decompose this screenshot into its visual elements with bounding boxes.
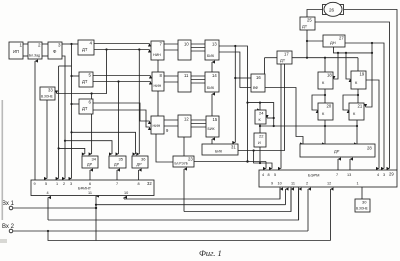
wire block32 pin 8 to block36 bottom bbox=[138, 170, 140, 180]
svg-text:НИН: НИН bbox=[153, 124, 161, 128]
svg-text:13: 13 bbox=[212, 42, 217, 47]
wire x307 down to block17 output bbox=[306, 41, 308, 58]
svg-text:35: 35 bbox=[119, 157, 124, 162]
wire stub into block14 bottom bbox=[211, 94, 213, 116]
node trunk at x338 bbox=[337, 52, 339, 54]
node block17 output at x325 bbox=[324, 57, 326, 59]
wire block25 bottom to block27 bbox=[307, 30, 323, 41]
block 9 bbox=[151, 116, 169, 134]
svg-text:12: 12 bbox=[184, 117, 189, 122]
wire block17 output to block18 and block19 tops bbox=[292, 58, 358, 72]
svg-text:БФИНТ: БФИНТ bbox=[78, 187, 92, 191]
block 6 bbox=[79, 99, 93, 114]
block 33 bbox=[40, 87, 55, 100]
svg-text:ИП: ИП bbox=[13, 49, 19, 54]
wire branch to block24 and block29 pin 5 bbox=[248, 103, 274, 126]
wire block16 top link to block17 bbox=[264, 58, 266, 74]
svg-text:25: 25 bbox=[307, 18, 312, 23]
wire branch into block21 left bbox=[343, 95, 358, 110]
svg-text:11: 11 bbox=[184, 73, 189, 78]
block 35 bbox=[109, 156, 126, 168]
node x273.7 joins y126 trunk bbox=[273, 125, 275, 127]
node trunk at y132 bbox=[70, 131, 72, 133]
wire block29 to block30 bbox=[361, 187, 363, 199]
svg-text:33: 33 bbox=[48, 88, 53, 93]
svg-text:В.ЗОНЕ: В.ЗОНЕ bbox=[356, 207, 368, 211]
wire block6 upper output to block9 bbox=[92, 103, 150, 121]
wire block32 pin 9 to block2 bottom bbox=[34, 61, 36, 180]
svg-text:3: 3 bbox=[383, 173, 385, 177]
svg-text:36: 36 bbox=[141, 157, 146, 162]
wire stub into block13 bottom bbox=[211, 62, 213, 72]
svg-text:Фиг. 1: Фиг. 1 bbox=[199, 248, 222, 258]
block 19 bbox=[351, 71, 366, 89]
wire branch into block6 bbox=[72, 103, 80, 105]
wire block19 bottom to block21 top bbox=[357, 89, 359, 103]
svg-text:1: 1 bbox=[56, 182, 58, 186]
node bx1 junction bbox=[95, 207, 97, 209]
scan artifact left edge bbox=[2, 100, 4, 220]
svg-text:ДР: ДР bbox=[137, 163, 143, 167]
block 22 bbox=[254, 133, 266, 147]
wire block8 to block9 chain bbox=[157, 91, 159, 116]
svg-text:2: 2 bbox=[306, 182, 308, 186]
wire branch into block16 upper input bbox=[235, 77, 251, 79]
node tee at x253.6 bbox=[253, 149, 255, 151]
wire feedback y199 block29 to block32 pin 10 bbox=[124, 188, 280, 200]
svg-text:В.ЗОНЕ: В.ЗОНЕ bbox=[41, 95, 53, 99]
wire block31 to block15 bottom bbox=[211, 139, 213, 144]
svg-text:4: 4 bbox=[47, 191, 49, 195]
wire x372 riser to block21 right bbox=[366, 43, 373, 107]
wire block17 bottom to block31 right bbox=[238, 64, 285, 151]
block 23 bbox=[173, 156, 194, 167]
node pin1 trunk at y148 bbox=[58, 147, 60, 149]
wire branch to block36 top left bbox=[72, 132, 136, 154]
block 31 bbox=[202, 144, 238, 155]
svg-text:31: 31 bbox=[231, 145, 236, 150]
wire block12 bottom to block23 top bbox=[183, 137, 185, 156]
wire block20 bottom to block28 top bbox=[324, 120, 326, 144]
wire block32 pin 6 to block34 bottom bbox=[89, 170, 91, 180]
node trunk at x346 bbox=[345, 52, 347, 54]
wire pin1 riser x58.6 bbox=[58, 66, 60, 179]
svg-text:10: 10 bbox=[184, 42, 189, 47]
wire block23 right to block29 pin 4 bbox=[194, 162, 266, 169]
svg-text:19: 19 bbox=[360, 72, 365, 77]
svg-text:ВФ: ВФ bbox=[253, 86, 258, 90]
wire bx1 riser to block 32 pin 11 bbox=[95, 196, 97, 241]
wire block27 bottom trunk bbox=[334, 47, 373, 53]
svg-text:29: 29 bbox=[389, 172, 394, 177]
wire bx2 horizontal to block 29 pin bbox=[13, 189, 308, 231]
node branch to block35 bbox=[117, 80, 119, 82]
wire block25 right to right riser x389.5 bbox=[315, 22, 390, 169]
wire block12 to block15 bus bbox=[191, 120, 206, 127]
svg-text:18: 18 bbox=[327, 73, 332, 78]
wire block10 to block13 bus bbox=[191, 44, 205, 51]
svg-text:4: 4 bbox=[377, 173, 379, 177]
wire corridor stub y66 bbox=[59, 65, 72, 67]
wire block3 lower output to block32 pin 2 bbox=[62, 56, 65, 179]
svg-text:Ф: Ф bbox=[53, 49, 57, 54]
svg-text:7: 7 bbox=[336, 173, 338, 177]
wire branch x106.5 down to block33 right bbox=[57, 50, 107, 94]
svg-text:НИН: НИН bbox=[153, 53, 161, 57]
svg-text:14: 14 bbox=[212, 73, 217, 78]
svg-text:6: 6 bbox=[89, 182, 91, 186]
svg-text:1: 1 bbox=[357, 182, 359, 186]
wire block22 bottom joins pin8 jog bbox=[259, 147, 261, 163]
node block19 bottom branch bbox=[357, 94, 359, 96]
wire block25 top to motor 26 bbox=[307, 10, 324, 18]
svg-text:БЭРМ: БЭРМ bbox=[308, 173, 319, 178]
node tee at y78 bbox=[234, 77, 236, 79]
svg-text:22: 22 bbox=[259, 134, 264, 139]
wire block19 right to right riser pin 4r bbox=[366, 80, 379, 169]
svg-text:16: 16 bbox=[256, 75, 261, 80]
svg-text:Вх 1: Вх 1 bbox=[2, 201, 15, 207]
wire block3 to block4 with branch trunk bbox=[62, 43, 78, 45]
svg-text:30: 30 bbox=[362, 200, 367, 205]
block 24 bbox=[255, 110, 266, 124]
svg-text:ДТ: ДТ bbox=[82, 47, 88, 52]
block 14 bbox=[205, 72, 219, 92]
wire block9 to block12 bus bbox=[164, 120, 178, 126]
block 3 bbox=[48, 42, 62, 59]
svg-text:И: И bbox=[258, 141, 261, 145]
svg-text:4: 4 bbox=[262, 173, 264, 177]
svg-text:7: 7 bbox=[116, 182, 118, 186]
svg-text:20: 20 bbox=[327, 104, 332, 109]
svg-text:9: 9 bbox=[166, 128, 169, 133]
svg-text:5: 5 bbox=[274, 173, 276, 177]
wire arrow into block19 left bbox=[346, 53, 350, 79]
svg-text:3: 3 bbox=[70, 182, 72, 186]
block 12 bbox=[178, 115, 191, 137]
node junction x247.5 y161.5 bbox=[246, 160, 248, 162]
svg-text:10: 10 bbox=[278, 182, 282, 186]
scan artifact bottom left bbox=[0, 239, 7, 243]
wire tee x235.3 to block31 top and block16 upper input bbox=[234, 46, 236, 143]
block 5 bbox=[79, 72, 93, 87]
svg-text:17: 17 bbox=[284, 52, 289, 57]
node trunk at block5 bbox=[70, 75, 72, 77]
svg-text:32: 32 bbox=[147, 181, 152, 186]
wire tee down to block29 pin 8 bbox=[254, 151, 272, 169]
wire block16 output to block28 top left bbox=[265, 88, 303, 145]
svg-text:9: 9 bbox=[271, 182, 273, 186]
svg-text:БИК: БИК bbox=[215, 150, 223, 154]
block 10 bbox=[178, 40, 191, 60]
wire branch into block5 bbox=[72, 75, 80, 77]
node block13 upper output tee bbox=[234, 45, 236, 47]
svg-text:13: 13 bbox=[347, 173, 351, 177]
svg-text:5: 5 bbox=[45, 182, 47, 186]
wire branch into block20 left bbox=[312, 95, 325, 110]
svg-text:ДР: ДР bbox=[334, 149, 340, 154]
block 16 bbox=[251, 74, 265, 92]
wire block8 to block11 bus bbox=[164, 76, 178, 82]
node branch to block36 right feed bbox=[138, 48, 140, 50]
svg-text:ДР: ДР bbox=[114, 163, 120, 167]
block 27 bbox=[323, 35, 345, 47]
svg-text:34: 34 bbox=[92, 157, 97, 162]
wire block11 to block14 bus bbox=[191, 76, 205, 83]
block 18 bbox=[318, 72, 333, 89]
wire y126 trunk to block28 feeds bbox=[260, 125, 357, 127]
wire feedback y211.5 block29 to block23 bbox=[184, 169, 291, 212]
wire block2 to block3 lower bbox=[42, 55, 48, 57]
block 36 bbox=[132, 156, 148, 168]
block 25 bbox=[300, 17, 315, 30]
wire block5 upper output to block8 bbox=[93, 75, 151, 77]
svg-text:9: 9 bbox=[34, 182, 36, 186]
block 7 bbox=[151, 41, 164, 60]
svg-text:БИК: БИК bbox=[207, 54, 215, 58]
svg-text:2: 2 bbox=[63, 182, 65, 186]
wire arrow into block18 right bbox=[334, 53, 338, 79]
node block27 right at x372 bbox=[371, 42, 373, 44]
wire arrow into block24 right bbox=[267, 117, 274, 119]
block 17 bbox=[277, 51, 292, 64]
node join at y163 bbox=[259, 162, 261, 164]
wire bottom long feedback to block 29 bbox=[48, 189, 331, 241]
node y126 trunk start bbox=[259, 125, 261, 127]
svg-text:ДР: ДР bbox=[87, 163, 93, 167]
svg-text:26: 26 bbox=[329, 7, 335, 12]
svg-text:ДТ: ДТ bbox=[280, 58, 286, 63]
svg-text:11: 11 bbox=[291, 182, 295, 186]
wire motor 26 right to right riser x397 bbox=[344, 10, 397, 171]
node input terminal bx2 bbox=[9, 229, 13, 233]
node y126 at x357 bbox=[356, 125, 358, 127]
svg-text:ДТ: ДТ bbox=[82, 79, 88, 84]
wire block7 to block8 chain bbox=[157, 60, 159, 72]
wire branch x118.5 to block35 top bbox=[118, 82, 120, 155]
wire block21 bottom to block28 top bbox=[356, 120, 358, 144]
node bx2 branch junction bbox=[47, 230, 49, 232]
node block18 bottom branch bbox=[324, 94, 326, 96]
svg-text:28: 28 bbox=[367, 146, 372, 151]
wire block9 bottom to block23 left bbox=[156, 134, 173, 162]
svg-text:Вх 2: Вх 2 bbox=[2, 224, 15, 230]
wire block18 bottom to block20 top bbox=[324, 89, 326, 103]
svg-text:ДТ: ДТ bbox=[302, 24, 308, 29]
wire into block24 top bbox=[259, 103, 261, 110]
wire feedback y204.7 block29 to bx1 riser bbox=[96, 189, 286, 205]
wire block4 lower output to block7 bbox=[94, 49, 150, 51]
wire block6 lower output to block9 bbox=[92, 110, 150, 127]
node branch to block33 bbox=[105, 48, 107, 50]
svg-text:Бл.РЭУБ: Бл.РЭУБ bbox=[175, 162, 188, 166]
wire block29 pin 7 to block28 bottom bbox=[337, 159, 339, 170]
node y126 at x325 bbox=[324, 125, 326, 127]
wire branch to block35 top left bbox=[65, 141, 112, 154]
wire block1 to block2 upper bbox=[23, 43, 28, 45]
wire block24 bottom to block22 top bbox=[259, 124, 261, 133]
wire branch x91.6 to block34 top bbox=[91, 94, 93, 155]
wire block32 pin 7 to block35 bottom bbox=[116, 170, 118, 180]
node block25 bottom junction bbox=[306, 40, 308, 42]
wire block7 to block10 bus bbox=[164, 44, 178, 50]
block 30 bbox=[355, 199, 370, 212]
svg-text:24: 24 bbox=[259, 111, 264, 116]
block 8 bbox=[152, 72, 164, 91]
svg-text:Бл.Зад: Бл.Зад bbox=[29, 54, 40, 58]
svg-text:8: 8 bbox=[138, 182, 140, 186]
svg-text:БИК: БИК bbox=[207, 86, 215, 90]
svg-text:27: 27 bbox=[339, 36, 344, 41]
svg-text:ДТ: ДТ bbox=[82, 106, 88, 111]
svg-text:15: 15 bbox=[213, 117, 218, 122]
node branch to block34 right feed bbox=[91, 92, 93, 94]
block 34 bbox=[82, 156, 98, 168]
wire block5 lower output to block8 bbox=[93, 81, 151, 83]
arrow feedback into block29 at x291 bbox=[290, 189, 292, 212]
wire bx1 horizontal bbox=[13, 207, 96, 209]
node block17 output at x307 bbox=[306, 57, 308, 59]
block 28 bbox=[300, 144, 375, 157]
wire block2 to block3 upper bbox=[42, 43, 48, 45]
block 13 bbox=[205, 40, 219, 60]
block 32 bbox=[31, 180, 154, 196]
svg-text:10: 10 bbox=[124, 191, 128, 195]
svg-text:23: 23 bbox=[188, 157, 193, 162]
wire branch to block34 top left bbox=[59, 148, 85, 154]
node trunk x247.5 at y102.6 bbox=[246, 102, 248, 104]
wire block33 to block32 pin 5 bbox=[46, 100, 48, 179]
node trunk top bbox=[70, 43, 72, 45]
svg-text:БИК: БИК bbox=[208, 127, 216, 131]
wire trunk x71.5 down to block32 pin 3 bbox=[71, 44, 73, 179]
block 29 bbox=[259, 170, 397, 187]
wire block17 input horizontal bbox=[265, 57, 278, 59]
block 2 bbox=[28, 42, 42, 59]
svg-text:12: 12 bbox=[327, 182, 331, 186]
motor 26 bbox=[323, 2, 344, 16]
svg-text:11: 11 bbox=[88, 191, 92, 195]
block 20 bbox=[318, 103, 333, 120]
block 11 bbox=[178, 72, 191, 92]
node feedback join on bx1 riser bbox=[95, 204, 97, 206]
node trunk at block6 bbox=[70, 103, 72, 105]
svg-text:НИН: НИН bbox=[154, 84, 162, 88]
node pin2 trunk at y140 bbox=[64, 140, 66, 142]
block 15 bbox=[206, 116, 219, 137]
wire block13 lower output to block16 lower input bbox=[219, 52, 251, 88]
wire block27 right to riser pin 3r bbox=[345, 43, 384, 169]
arrow feedback into block29 at x280 bbox=[279, 189, 281, 199]
node trunk at x372 bbox=[371, 52, 373, 54]
wire feedback y220 block29 to block32 pin 4 bbox=[48, 188, 299, 221]
block 21 bbox=[349, 103, 364, 120]
wire block13 output down trunk x247.5 bbox=[219, 46, 248, 162]
wire branch x139.3 to block36 top bbox=[138, 50, 140, 155]
wire block29 pin 13 to block28 bottom bbox=[349, 159, 351, 170]
wire block1 to block2 lower bbox=[23, 55, 28, 57]
node input terminal bx1 bbox=[9, 206, 13, 210]
node branch into block24 top bbox=[259, 102, 261, 104]
block 4 bbox=[78, 40, 94, 55]
wire block17 bottom to block29 pin 5b bbox=[280, 64, 282, 169]
svg-text:8: 8 bbox=[268, 173, 270, 177]
svg-text:21: 21 bbox=[358, 104, 363, 109]
arrow feedback into block29 at x298 bbox=[298, 189, 300, 220]
block 1 bbox=[9, 42, 23, 59]
svg-text:ДН: ДН bbox=[330, 40, 336, 45]
wire block4 upper output to block7 bbox=[94, 43, 150, 45]
node x273.7 at block24 right bbox=[273, 117, 275, 119]
